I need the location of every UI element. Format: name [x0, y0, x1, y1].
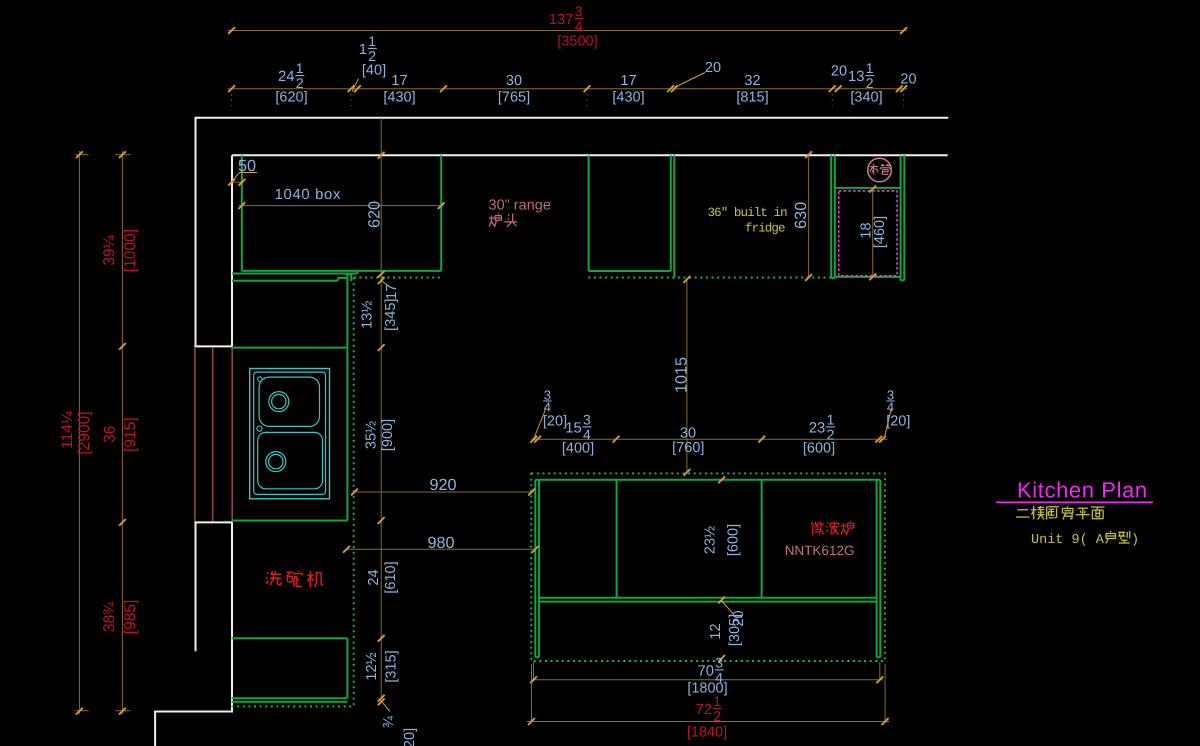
- svg-text:20: 20: [731, 610, 747, 626]
- svg-text:Kitchen Plan: Kitchen Plan: [1017, 478, 1148, 503]
- svg-text:NNTK612G: NNTK612G: [785, 543, 855, 558]
- svg-text:1: 1: [368, 33, 376, 49]
- svg-text:4: 4: [575, 18, 583, 34]
- svg-text:[460]: [460]: [872, 216, 888, 248]
- svg-text:70: 70: [698, 664, 714, 680]
- svg-text:1: 1: [296, 60, 304, 76]
- svg-text:[430]: [430]: [612, 90, 644, 106]
- svg-text:20: 20: [900, 72, 916, 88]
- svg-text:[600]: [600]: [726, 524, 742, 556]
- svg-text:[600]: [600]: [803, 441, 835, 457]
- svg-text:[20]: [20]: [402, 728, 418, 746]
- svg-text:Unit 9( A: Unit 9( A: [1031, 533, 1105, 548]
- svg-text:[3500]: [3500]: [557, 34, 597, 50]
- svg-text:72: 72: [696, 702, 712, 718]
- svg-text:[1000]: [1000]: [122, 229, 139, 272]
- svg-text:4: 4: [887, 400, 894, 415]
- svg-text:3: 3: [583, 411, 591, 427]
- svg-text:1: 1: [713, 693, 721, 709]
- svg-text:[345]: [345]: [383, 299, 399, 331]
- svg-text:13½: 13½: [360, 301, 376, 329]
- svg-text:[40]: [40]: [362, 63, 386, 79]
- svg-text:36: 36: [102, 426, 119, 443]
- svg-text:[340]: [340]: [850, 90, 882, 106]
- svg-text:12: 12: [708, 623, 724, 639]
- svg-text:[430]: [430]: [383, 90, 415, 106]
- svg-text:[985]: [985]: [122, 600, 139, 634]
- svg-text:[915]: [915]: [122, 417, 139, 451]
- svg-text:[315]: [315]: [384, 650, 400, 682]
- svg-text:[20]: [20]: [543, 414, 567, 430]
- svg-text:[765]: [765]: [498, 90, 530, 106]
- svg-text:32: 32: [744, 73, 760, 89]
- svg-text:17: 17: [384, 284, 400, 300]
- svg-text:137: 137: [549, 12, 574, 28]
- svg-text:[610]: [610]: [383, 561, 399, 593]
- svg-text:[400]: [400]: [562, 441, 594, 457]
- svg-text:3: 3: [715, 654, 723, 670]
- svg-text:20: 20: [831, 64, 847, 80]
- svg-text:1: 1: [866, 60, 874, 76]
- svg-text:30" range: 30" range: [489, 198, 551, 214]
- svg-text:[1800]: [1800]: [687, 681, 727, 697]
- svg-text:23½: 23½: [703, 526, 719, 554]
- svg-text:1040 box: 1040 box: [275, 187, 342, 203]
- svg-text:2: 2: [713, 708, 721, 724]
- svg-text:13: 13: [848, 69, 864, 85]
- svg-text:23: 23: [809, 421, 825, 437]
- svg-text:1015: 1015: [673, 357, 691, 393]
- svg-text:): ): [1131, 533, 1139, 548]
- svg-text:[20]: [20]: [886, 414, 910, 430]
- svg-text:12½: 12½: [364, 652, 380, 680]
- svg-text:24: 24: [366, 569, 382, 585]
- svg-text:620: 620: [366, 201, 384, 228]
- svg-text:630: 630: [792, 202, 810, 229]
- svg-text:15: 15: [565, 421, 581, 437]
- svg-text:980: 980: [427, 534, 454, 552]
- svg-text:24: 24: [278, 69, 294, 85]
- svg-text:1: 1: [827, 411, 835, 427]
- svg-text:fridge: fridge: [745, 222, 785, 236]
- svg-text:¾: ¾: [381, 715, 397, 728]
- svg-text:30: 30: [506, 73, 522, 89]
- svg-text:35½: 35½: [363, 421, 379, 449]
- svg-text:[1840]: [1840]: [687, 725, 727, 741]
- svg-text:[620]: [620]: [275, 90, 307, 106]
- svg-text:[760]: [760]: [672, 440, 704, 456]
- svg-text:1: 1: [359, 42, 367, 58]
- svg-text:36" built in: 36" built in: [708, 206, 788, 220]
- svg-text:50: 50: [238, 157, 256, 175]
- svg-text:920: 920: [429, 476, 456, 494]
- svg-text:114¼: 114¼: [59, 410, 76, 449]
- svg-text:3: 3: [575, 3, 583, 19]
- svg-text:20: 20: [705, 60, 721, 76]
- svg-text:[2900]: [2900]: [76, 411, 93, 454]
- svg-text:38¾: 38¾: [101, 601, 118, 632]
- svg-text:17: 17: [391, 73, 407, 89]
- svg-text:[815]: [815]: [736, 90, 768, 106]
- svg-text:17: 17: [620, 73, 636, 89]
- svg-text:39¼: 39¼: [101, 234, 118, 265]
- svg-text:[900]: [900]: [380, 419, 396, 451]
- svg-text:4: 4: [544, 400, 551, 415]
